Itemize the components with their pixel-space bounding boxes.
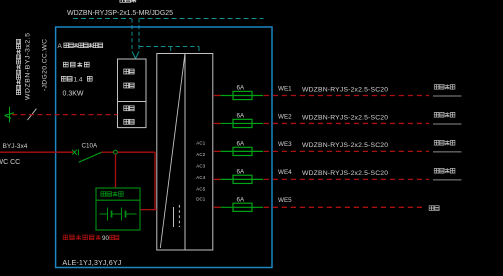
svg-text:6A: 6A — [237, 197, 246, 204]
svg-text:WE4: WE4 — [278, 169, 292, 176]
note incoming source (rotated) — [16, 39, 21, 94]
wire branch WE3 stub — [214, 150, 221, 152]
label module — [124, 83, 134, 88]
svg-text:WDZBN-BYJ-3x2.5: WDZBN-BYJ-3x2.5 — [25, 33, 32, 100]
wire monitor feed dashed — [12, 114, 118, 116]
svg-text:AC4: AC4 — [196, 175, 206, 180]
svg-text:ALE-1YJ,3YJ,6YJ: ALE-1YJ,3YJ,6YJ — [62, 258, 121, 267]
leader line — [27, 109, 36, 120]
svg-text:6A: 6A — [237, 113, 246, 120]
note emergency duration 90 min — [63, 235, 119, 242]
svg-text:6A: 6A — [237, 141, 246, 148]
svg-text:WDZBN-RYJS-2x2.5-SC20: WDZBN-RYJS-2x2.5-SC20 — [302, 170, 388, 177]
wire breaker to node — [101, 151, 113, 153]
load label emergency lighting row 3 — [434, 140, 455, 145]
svg-text:AC2: AC2 — [196, 152, 206, 157]
wire dashed branch to EPS — [139, 47, 199, 54]
svg-text:WDZBN-RYJSP-2x1.5-MR/JDG25: WDZBN-RYJSP-2x1.5-MR/JDG25 — [67, 10, 173, 17]
home-run arrow — [5, 107, 14, 123]
wire feeder drop right — [138, 19, 140, 52]
wire feeder drop left — [131, 19, 133, 52]
label panel title A-type emergency lighting box — [58, 43, 103, 50]
svg-text:6A: 6A — [237, 169, 246, 176]
svg-text:90: 90 — [102, 235, 109, 242]
wire branch WE5 stub — [214, 206, 221, 208]
charger module box — [96, 188, 140, 230]
underline row 4 — [433, 179, 462, 181]
battery BT1 — [100, 208, 137, 221]
load label spare — [429, 206, 439, 211]
svg-text:AC5: AC5 — [196, 187, 206, 192]
wire branch WE2 stub — [214, 122, 221, 124]
load label emergency lighting row 2 — [434, 112, 455, 117]
fuse FU2 6A — [233, 119, 252, 127]
svg-text:AC3: AC3 — [196, 164, 206, 169]
wire branch WE1 stub — [214, 95, 221, 97]
wire branch WE2 dashed run — [264, 122, 429, 124]
svg-text:WDZBN-RYJS-2x2.5-SC20: WDZBN-RYJS-2x2.5-SC20 — [302, 86, 388, 93]
wire branch WE3 dashed run — [264, 150, 429, 152]
cable label -JDG20.CC.WC (rotated) — [42, 39, 49, 91]
svg-text:C10A: C10A — [82, 143, 99, 150]
label wall mounted — [63, 62, 89, 67]
breaker Q1 blade — [79, 152, 102, 162]
wire branch WE1 dashed run — [264, 95, 429, 97]
wire mains feed — [0, 151, 73, 153]
svg-text:WC CC: WC CC — [0, 159, 20, 166]
svg-text:AC1: AC1 — [196, 141, 206, 146]
svg-text:BYJ-3x4: BYJ-3x4 — [3, 143, 28, 150]
label mains power — [124, 106, 134, 111]
wire through fuse FU3 — [221, 150, 264, 152]
battery marks inside EPS — [174, 205, 180, 227]
svg-text:WE2: WE2 — [278, 113, 292, 120]
svg-text:1.4: 1.4 — [74, 76, 83, 83]
wire charger output to EPS — [140, 209, 157, 211]
module U1 communication / mains monitor box — [118, 59, 147, 128]
wire feeder dashed bus — [73, 18, 264, 20]
label height 1.4m — [61, 76, 92, 83]
breaker Q1 contact cross — [72, 149, 78, 155]
wire branch WE4 stub — [214, 178, 221, 180]
EPS inverter unit box — [157, 54, 213, 251]
changeover diagonal — [160, 54, 185, 248]
underline row 3 — [433, 151, 462, 153]
svg-text:WDZBN-RYJS-2x2.5-SC20: WDZBN-RYJS-2x2.5-SC20 — [302, 142, 388, 149]
svg-text:WE1: WE1 — [278, 85, 292, 92]
wire branch WE4 dashed run — [264, 178, 429, 180]
fuse FU1 6A — [233, 91, 252, 99]
svg-text:-JDG20.CC.WC: -JDG20.CC.WC — [42, 39, 49, 91]
wire through fuse FU2 — [221, 122, 264, 124]
wire through fuse FU5 — [221, 206, 264, 208]
enclosure panel ALE box — [56, 27, 272, 268]
wire through fuse FU4 — [221, 178, 264, 180]
wire through fuse FU1 — [221, 95, 264, 97]
load label emergency lighting row 4 — [434, 168, 455, 173]
load label emergency lighting row 1 — [434, 84, 455, 89]
arrow into communication module — [132, 52, 139, 59]
svg-text:DC1: DC1 — [196, 197, 206, 202]
svg-text:6A: 6A — [237, 85, 246, 92]
label monitoring — [124, 119, 134, 124]
label communication — [124, 69, 134, 74]
svg-text:WE5: WE5 — [278, 197, 292, 204]
svg-text:A: A — [58, 43, 63, 50]
fuse FU3 6A — [233, 147, 252, 155]
fuse FU5 6A — [233, 203, 252, 211]
cable label WDZBN-BYJ-3x2.5 (rotated) — [25, 33, 32, 100]
wire node to EPS — [118, 152, 156, 209]
wire branch WE5 dashed run — [264, 206, 424, 208]
label feeder source (cut off at top) — [120, 0, 136, 2]
underline row 1 — [433, 95, 462, 97]
wire node down to charger — [115, 154, 117, 188]
fuse FU4 6A — [233, 175, 252, 183]
node junction J1 — [114, 150, 118, 154]
svg-text:0.3KW: 0.3KW — [63, 91, 84, 98]
label charging module — [101, 191, 123, 196]
svg-text:WDZBN-RYJS-2x2.5-SC20: WDZBN-RYJS-2x2.5-SC20 — [302, 114, 388, 121]
underline row 2 — [433, 123, 462, 125]
svg-text:WE3: WE3 — [278, 141, 292, 148]
